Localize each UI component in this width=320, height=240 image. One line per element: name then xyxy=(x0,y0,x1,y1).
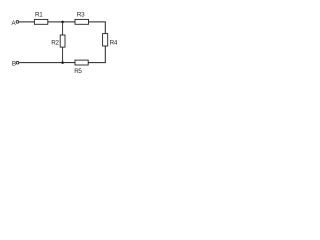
svg-text:R3: R3 xyxy=(77,12,85,19)
terminal A xyxy=(11,20,18,27)
resistor R2 xyxy=(51,35,65,47)
resistor R4 xyxy=(103,34,118,47)
wire R1 to node 1 xyxy=(48,21,63,23)
wire R2 to node 2 xyxy=(62,47,64,63)
resistor R1 xyxy=(34,12,47,25)
wire A to R1 xyxy=(19,21,35,23)
node junction bottom xyxy=(61,61,64,64)
node junction top xyxy=(61,21,64,24)
wire R4 to bottom-right corner to R5 xyxy=(88,46,105,63)
wire R5 to node 2 xyxy=(63,62,75,64)
wire R3 to top-right corner down to R4 xyxy=(89,22,106,34)
wire node 1 to R2 xyxy=(62,22,64,35)
terminal B xyxy=(12,60,19,67)
resistor R5 xyxy=(74,60,88,75)
svg-text:R1: R1 xyxy=(35,12,43,19)
resistor R3 xyxy=(75,12,89,25)
svg-text:R2: R2 xyxy=(51,40,59,47)
wire node 2 to B xyxy=(19,62,63,64)
svg-text:B: B xyxy=(12,60,16,67)
wire node 1 to R3 xyxy=(63,21,75,23)
svg-text:R5: R5 xyxy=(74,68,82,75)
svg-text:R4: R4 xyxy=(110,40,118,47)
